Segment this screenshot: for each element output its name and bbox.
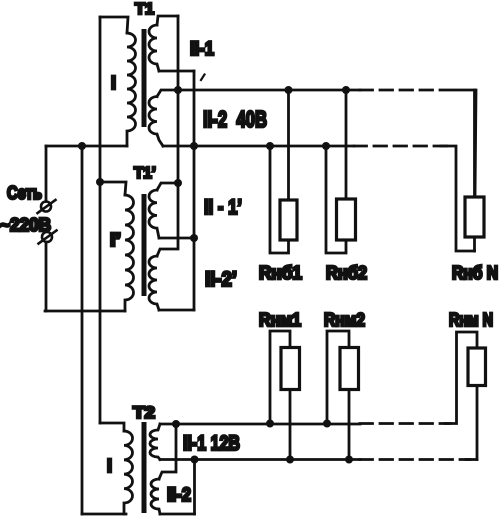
node: T1' primary top junction [96, 178, 104, 186]
svg-text:II-2’: II-2’ [205, 268, 237, 291]
winding II-2 of T1 coil [149, 97, 163, 147]
resistor Rнм2 [340, 348, 359, 390]
node: bus C x327 [323, 420, 331, 428]
wire: bus B y146 dashed [354, 145, 448, 148]
node: T2 bus C tap [172, 420, 180, 428]
winding II-2' coil [149, 256, 159, 310]
svg-text:Т1’: Т1’ [134, 165, 156, 182]
winding II-2' bottom bracket [159, 309, 194, 312]
resistor Rнм2 bottom wire [348, 390, 351, 460]
wire: bus B y146 solid [163, 145, 354, 148]
wire: bus A y90 dashed [360, 89, 457, 92]
core of T1' [142, 194, 147, 296]
resistor Rнб1 top wire [287, 90, 290, 200]
node: bus B x194 [190, 142, 198, 150]
svg-text:Rнб2: Rнб2 [326, 263, 367, 283]
wire: T2 II-2 top jumper riser x176 [159, 424, 176, 479]
node: bus A tap junction [174, 86, 182, 94]
svg-text:II-2 40В: II-2 40В [203, 106, 267, 132]
wire: bus C y424 dashed [360, 422, 450, 425]
core of T1 [142, 29, 147, 127]
svg-text:Т1: Т1 [135, 1, 154, 18]
resistor Rнм N bottom wire [476, 386, 479, 460]
node: II-1' bottom junction on riser x194 [190, 234, 198, 242]
resistor Rнб1 [280, 200, 297, 240]
winding II-1' coil [149, 190, 159, 238]
winding I of T2 top lead [100, 423, 124, 431]
terminal: mains pin 2 [39, 231, 57, 244]
svg-text:I: I [107, 456, 112, 476]
node: bus B x270 [266, 142, 274, 150]
svg-text:II-1 12В: II-1 12В [183, 432, 240, 455]
winding II-1 of T1 bottom bracket [159, 70, 194, 73]
wire: T2 II-2 bottom riser x194.5 [193, 460, 196, 515]
svg-text:Т2: Т2 [133, 403, 155, 422]
winding I' of T1' coil [125, 195, 134, 311]
resistor Rнм1 bottom wire [289, 390, 292, 460]
wire: bus C right corner up [445, 332, 477, 424]
node: junction x82 on y146 [78, 142, 86, 150]
resistor Rнб2 [337, 199, 356, 240]
svg-text:II-1: II-1 [190, 39, 214, 60]
terminal: mains pin 1 [38, 200, 56, 213]
node: bus A x346 [342, 86, 350, 94]
node: bus D x194.5 [191, 456, 199, 464]
winding I of T1 (primary) top lead [100, 17, 128, 33]
core of T2 [142, 422, 147, 513]
resistor Rнм1 top wire [270, 331, 290, 424]
node: bus D x290 [286, 456, 294, 464]
winding II-1 of T1 top bracket [157, 16, 178, 25]
wire: mains pin2 riser [45, 242, 48, 311]
node: II-1' top junction on riser x178 [174, 179, 182, 187]
svg-text:II-2: II-2 [167, 485, 191, 506]
wire: bus D y459.5 solid [160, 458, 360, 461]
winding II-1 of T2 coil [150, 424, 160, 460]
wire: bus D right join [466, 458, 477, 461]
wire: primary common riser x=100 (T1 top to T2 top) [99, 17, 102, 423]
svg-text:Сеть: Сеть [7, 183, 42, 203]
resistor Rнм N [468, 348, 486, 386]
svg-text:Rнб1: Rнб1 [259, 263, 302, 283]
winding II-2 of T2 bottom bracket [160, 513, 195, 516]
wire: bus A y90 right end corner [455, 90, 476, 197]
resistor Rнм2 top wire [327, 331, 349, 424]
svg-text:Rнм N: Rнм N [449, 310, 493, 330]
wire: T2 primary bottom y514 [82, 513, 126, 516]
wire: mains pin1 riser [45, 146, 48, 202]
wire: bus D y459.5 dashed [360, 458, 470, 461]
svg-text:~220В: ~220В [0, 215, 51, 235]
winding I' of T1' top lead [100, 182, 126, 195]
winding II-1' bottom bracket [159, 237, 194, 240]
wire: bus C y424 solid [160, 423, 360, 426]
wire: mains horizontal y146 [46, 145, 127, 148]
winding II-2 of T2 coil [151, 479, 160, 514]
winding I of T1 coil [127, 33, 136, 146]
resistor Rнб N top wire [473, 90, 476, 197]
svg-text:Rнм1: Rнм1 [259, 310, 301, 330]
resistor Rнб1 bottom wire [270, 146, 289, 253]
winding I of T2 coil [124, 431, 133, 514]
node: bus B x326 [322, 142, 330, 150]
wire: riser x194 (II-1 bottom / bus B / II-1' bottom / II-2' bottom) [193, 71, 196, 310]
resistor Rнб2 bottom wire [326, 146, 346, 253]
resistor Rнм1 [281, 348, 300, 390]
winding II-2 of T1 top lead from bus A junction [157, 90, 178, 97]
wire: riser x178 (II-1 top / bus A / II-1' top / II-2' top) [157, 16, 178, 256]
wire: bus B right corner down [441, 146, 475, 251]
node: bus D x349 [345, 456, 353, 464]
svg-text:I: I [111, 73, 116, 93]
svg-text:II - 1’: II - 1’ [204, 196, 242, 219]
svg-text:Rнм2: Rнм2 [324, 310, 365, 330]
svg-text:I’: I’ [110, 230, 121, 250]
node: bus C x270 [266, 420, 274, 428]
resistor Rнб N bottom wire [473, 237, 476, 251]
node: bus A x288 [285, 86, 293, 94]
resistor Rнб N [465, 197, 484, 237]
svg-text:Rнб N: Rнб N [452, 263, 498, 283]
wire: bus A y90 solid [178, 89, 360, 92]
stray tick mark [201, 75, 205, 81]
resistor Rнб2 top wire [345, 90, 348, 199]
winding II-1' of T1' top lead [157, 183, 178, 190]
winding II-1 of T1 coil [149, 25, 159, 71]
wire: net-A riser x=82 (bus to T2 primary bottom) [81, 146, 84, 514]
wire: mains horizontal y311 to T1' primary bottom [45, 310, 125, 313]
